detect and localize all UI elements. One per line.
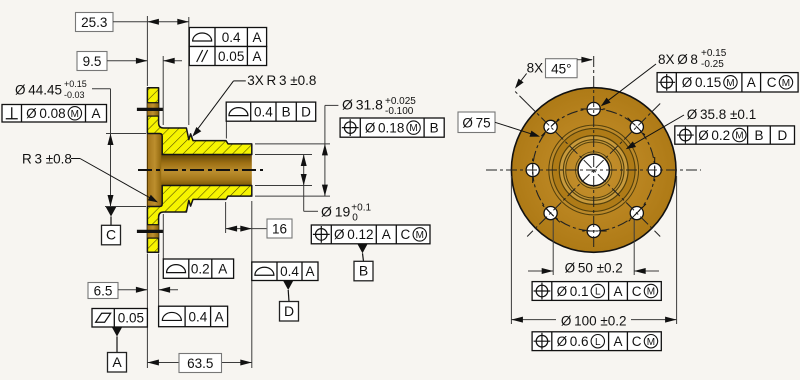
svg-text:B: B <box>359 263 368 279</box>
svg-text:0.05: 0.05 <box>218 49 244 64</box>
svg-text:C: C <box>632 334 642 349</box>
svg-text:Ø 19: Ø 19 <box>321 204 350 220</box>
svg-text:8X Ø 8: 8X Ø 8 <box>658 52 698 67</box>
svg-text:A: A <box>613 334 622 349</box>
svg-text:Ø 31.8: Ø 31.8 <box>342 97 383 113</box>
svg-text:Ø 44.45: Ø 44.45 <box>15 83 62 98</box>
svg-text:0.4: 0.4 <box>188 309 207 324</box>
svg-text:C: C <box>767 75 777 90</box>
svg-text:Ø 0.2: Ø 0.2 <box>698 128 730 143</box>
svg-text:63.5: 63.5 <box>187 356 213 371</box>
svg-text:D: D <box>778 128 788 143</box>
svg-text:0.2: 0.2 <box>191 261 210 276</box>
svg-text:M: M <box>735 131 743 142</box>
svg-text:A: A <box>91 106 100 121</box>
svg-text:M: M <box>782 78 790 89</box>
svg-text:Ø 0.15: Ø 0.15 <box>682 75 721 90</box>
svg-text:A: A <box>382 227 391 242</box>
svg-text:16: 16 <box>272 221 287 236</box>
svg-text:L: L <box>595 337 601 348</box>
svg-text:Ø 0.6: Ø 0.6 <box>557 334 589 349</box>
svg-text:D: D <box>301 104 311 119</box>
svg-text:6.5: 6.5 <box>94 283 113 298</box>
svg-text:0.4: 0.4 <box>254 104 273 119</box>
svg-text:Ø 100 ±0.2: Ø 100 ±0.2 <box>561 313 627 328</box>
svg-text:0.4: 0.4 <box>280 264 299 279</box>
svg-text:Ø 75: Ø 75 <box>462 116 490 131</box>
svg-text:L: L <box>595 287 601 298</box>
svg-text:C: C <box>106 227 116 243</box>
svg-text:9.5: 9.5 <box>83 54 102 69</box>
svg-text:-0.03: -0.03 <box>64 90 85 100</box>
svg-text:Ø 35.8 ±0.1: Ø 35.8 ±0.1 <box>687 107 756 122</box>
svg-text:M: M <box>647 337 655 348</box>
svg-text:R 3 ±0.8: R 3 ±0.8 <box>22 152 72 167</box>
svg-text:M: M <box>726 78 734 89</box>
svg-text:M: M <box>71 109 79 120</box>
svg-text:3X R 3 ±0.8: 3X R 3 ±0.8 <box>247 73 316 88</box>
svg-text:M: M <box>647 287 655 298</box>
svg-text:A: A <box>112 354 122 370</box>
svg-text:A: A <box>613 284 622 299</box>
svg-text:0: 0 <box>352 213 358 224</box>
svg-text:A: A <box>252 30 261 45</box>
svg-text:A: A <box>252 49 261 64</box>
svg-text:A: A <box>218 261 227 276</box>
svg-text:C: C <box>632 284 642 299</box>
svg-text:25.3: 25.3 <box>81 15 107 30</box>
svg-text:45°: 45° <box>551 61 571 76</box>
svg-text:C: C <box>401 227 411 242</box>
svg-text:D: D <box>284 303 294 319</box>
svg-text:0.4: 0.4 <box>222 30 241 45</box>
svg-text:+0.15: +0.15 <box>64 79 87 89</box>
svg-text:0.05: 0.05 <box>118 311 144 326</box>
svg-text:-0.25: -0.25 <box>701 59 724 70</box>
svg-text:Ø 50 ±0.2: Ø 50 ±0.2 <box>565 261 623 276</box>
svg-text:M: M <box>409 123 417 134</box>
svg-text:8X: 8X <box>527 61 544 76</box>
svg-text:B: B <box>754 128 763 143</box>
svg-text:B: B <box>430 120 439 135</box>
svg-text:Ø 0.18: Ø 0.18 <box>365 120 404 135</box>
svg-text:M: M <box>416 230 424 241</box>
svg-text:Ø 0.12: Ø 0.12 <box>334 227 373 242</box>
svg-text:A: A <box>305 264 314 279</box>
svg-text:A: A <box>215 309 224 324</box>
svg-text:Ø 0.1: Ø 0.1 <box>557 284 589 299</box>
svg-text:B: B <box>282 104 291 119</box>
svg-text:A: A <box>747 75 756 90</box>
svg-text:-0.100: -0.100 <box>385 106 414 117</box>
svg-text:+0.15: +0.15 <box>701 48 727 59</box>
svg-text:Ø 0.08: Ø 0.08 <box>26 106 65 121</box>
